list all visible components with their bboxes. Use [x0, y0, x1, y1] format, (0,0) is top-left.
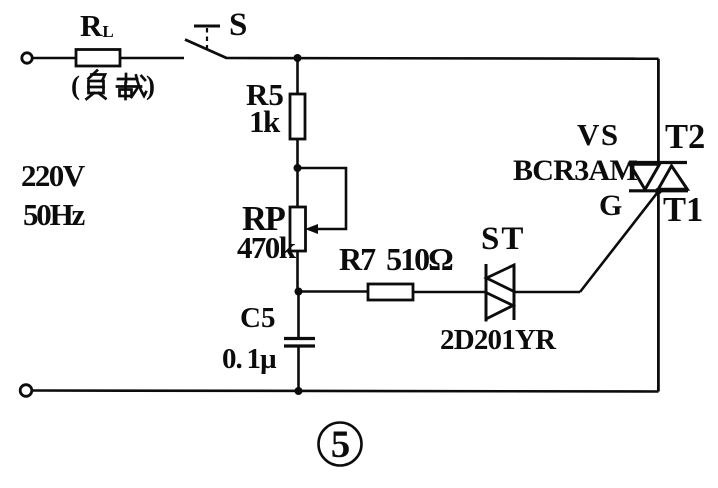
svg-text:RL: RL [80, 8, 114, 43]
svg-text:ST: ST [481, 221, 525, 257]
svg-text:BCR3AM: BCR3AM [513, 154, 638, 187]
svg-text:1k: 1k [249, 104, 281, 139]
svg-text:0. 1µ: 0. 1µ [222, 343, 277, 375]
svg-text:220V: 220V [21, 158, 86, 193]
svg-text:50Hz: 50Hz [23, 197, 86, 232]
svg-text:): ) [146, 71, 155, 101]
svg-text:T2: T2 [665, 118, 705, 156]
svg-text:(: ( [71, 71, 80, 101]
svg-text:VS: VS [577, 117, 620, 152]
svg-text:C5: C5 [240, 302, 275, 334]
svg-text:T1: T1 [663, 191, 703, 229]
svg-text:S: S [229, 7, 247, 43]
svg-text:2D201YR: 2D201YR [440, 324, 557, 356]
svg-text:470k: 470k [237, 230, 297, 265]
svg-text:G: G [599, 189, 622, 222]
svg-text:R7 510Ω: R7 510Ω [339, 241, 453, 277]
svg-text:5: 5 [331, 423, 351, 466]
